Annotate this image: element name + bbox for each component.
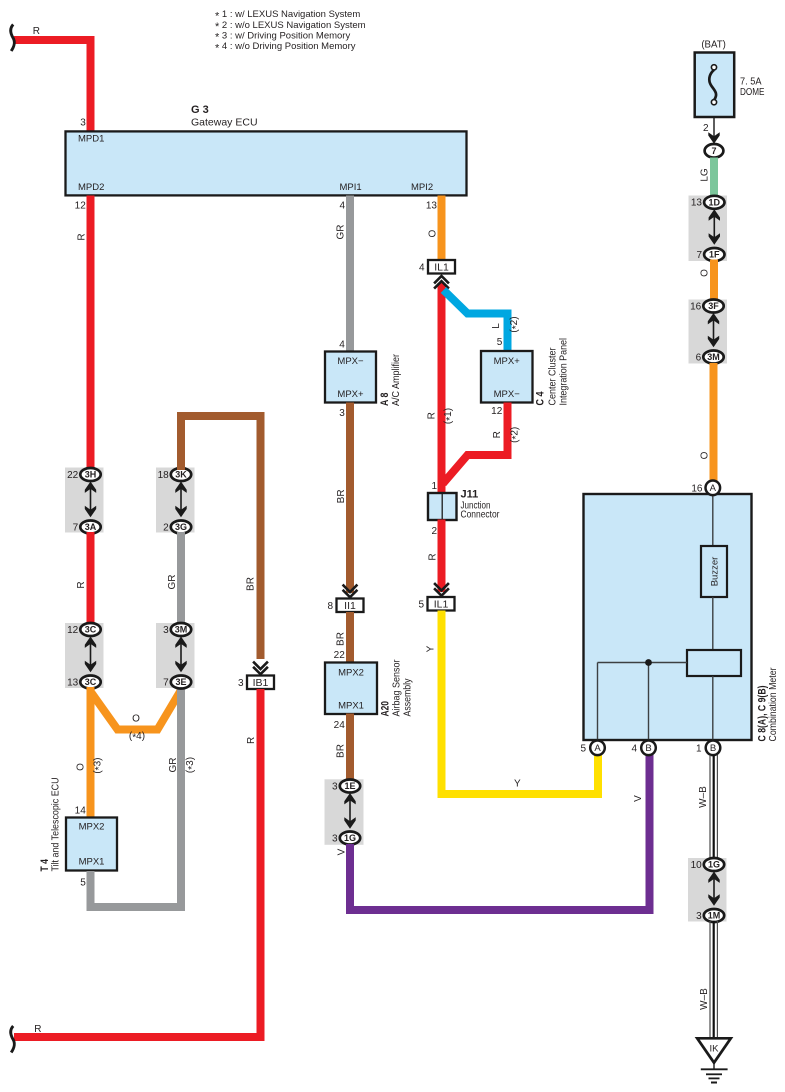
svg-text:10: 10 bbox=[691, 860, 703, 871]
svg-text:3M: 3M bbox=[707, 352, 720, 362]
svg-text:B: B bbox=[710, 743, 716, 754]
connector A pin 16 (meter top) bbox=[706, 481, 721, 496]
connector 7 bbox=[705, 144, 724, 158]
svg-text:3: 3 bbox=[80, 118, 86, 129]
svg-text:1M: 1M bbox=[708, 911, 721, 921]
legend note *1-*4 bbox=[215, 9, 366, 54]
svg-text:13: 13 bbox=[691, 198, 703, 209]
connector 3C pin 12 bbox=[67, 623, 101, 636]
svg-text:MPX−: MPX− bbox=[494, 389, 521, 400]
connector 3K pin 18 bbox=[158, 468, 192, 481]
svg-text:5: 5 bbox=[497, 337, 503, 348]
connector pair 1D/1F background bbox=[689, 196, 728, 262]
svg-text:II1: II1 bbox=[344, 600, 356, 612]
svg-text:8: 8 bbox=[327, 601, 333, 612]
svg-text:L: L bbox=[491, 323, 502, 329]
svg-text:R: R bbox=[426, 412, 437, 419]
svg-text:W–B: W–B bbox=[698, 786, 709, 808]
svg-text:R: R bbox=[76, 233, 87, 240]
svg-text:(*4): (*4) bbox=[129, 731, 145, 744]
svg-text:24: 24 bbox=[334, 720, 346, 731]
connector pair 1G/1M background bbox=[688, 858, 727, 922]
svg-text:G 3: G 3 bbox=[191, 104, 209, 116]
wire BR A8 to II1 bbox=[346, 403, 354, 594]
svg-text:22: 22 bbox=[67, 470, 79, 481]
branch chevrons below IL1 (pointing up) bbox=[434, 276, 449, 289]
svg-text:R: R bbox=[492, 431, 503, 438]
svg-text:22: 22 bbox=[334, 650, 346, 661]
connector IL1 pin 5 bbox=[418, 597, 454, 611]
wire GR 3G to 3M bbox=[177, 532, 185, 624]
arrow 1E-1G bbox=[344, 793, 355, 829]
svg-text:R: R bbox=[427, 553, 438, 560]
svg-text:GR: GR bbox=[335, 225, 346, 240]
svg-text:Y: Y bbox=[426, 645, 437, 652]
wire V 1G to meter pin 4(B) bbox=[350, 754, 650, 910]
svg-text:IB1: IB1 bbox=[253, 677, 269, 689]
svg-text:A: A bbox=[594, 743, 601, 754]
ECU T4 Tilt and Telescopic ECU bbox=[39, 778, 117, 872]
svg-text:Combination Meter: Combination Meter bbox=[767, 667, 779, 741]
svg-text:7: 7 bbox=[73, 522, 79, 533]
svg-text:IL1: IL1 bbox=[434, 261, 449, 273]
wire O bypass 3C to 3E (*4) bbox=[91, 690, 182, 730]
svg-text:(*3): (*3) bbox=[185, 757, 198, 773]
svg-text:IL1: IL1 bbox=[434, 598, 449, 610]
svg-text:(BAT): (BAT) bbox=[701, 39, 726, 51]
branch chevrons above IB1 bbox=[253, 662, 268, 675]
svg-text:Assembly: Assembly bbox=[402, 678, 414, 717]
connector pair 3H/3A background bbox=[65, 468, 104, 533]
arrow 3H-3A bbox=[85, 482, 96, 518]
svg-text:12: 12 bbox=[67, 625, 79, 636]
svg-text:MPI1: MPI1 bbox=[340, 182, 362, 193]
connector 3E pin 7 bbox=[163, 676, 191, 689]
svg-text:1: 1 bbox=[696, 743, 702, 754]
internal wire horizontal bbox=[598, 662, 688, 664]
svg-text:3: 3 bbox=[332, 781, 338, 792]
ground IK bbox=[697, 1038, 731, 1082]
wire Y IL1 to meter pin 5(A) bbox=[442, 611, 599, 795]
svg-text:16: 16 bbox=[690, 301, 702, 312]
ECU A8 A/C Amplifier bbox=[325, 352, 402, 407]
svg-text:3K: 3K bbox=[175, 470, 187, 480]
connector 1G pin 3 bbox=[332, 832, 360, 845]
wire fuse to connector 7 bbox=[713, 117, 715, 140]
internal wire to pin 4(B) bbox=[648, 663, 650, 742]
connector pair 3K/3G background bbox=[156, 468, 195, 533]
svg-text:W–B: W–B bbox=[699, 988, 710, 1010]
svg-text:1: 1 bbox=[431, 481, 437, 492]
meter C8(A) C9(B) Combination Meter bbox=[584, 494, 780, 742]
svg-text:Connector: Connector bbox=[461, 509, 500, 521]
connector 3H pin 22 bbox=[67, 468, 101, 481]
svg-text:B: B bbox=[645, 743, 651, 754]
svg-text:3H: 3H bbox=[85, 470, 97, 480]
svg-text:5: 5 bbox=[580, 743, 586, 754]
svg-text:R: R bbox=[33, 26, 40, 37]
arrow 1G-1M bbox=[708, 872, 719, 906]
ECU A20 Airbag Sensor Assembly bbox=[325, 659, 414, 716]
svg-text:Integration Panel: Integration Panel bbox=[558, 338, 570, 406]
wire BR II1 to A20 bbox=[346, 612, 354, 663]
svg-text:13: 13 bbox=[426, 201, 438, 212]
svg-text:BR: BR bbox=[335, 744, 346, 758]
svg-text:3E: 3E bbox=[175, 677, 186, 687]
svg-text:Gateway ECU: Gateway ECU bbox=[191, 116, 258, 128]
junction dot bbox=[645, 659, 652, 666]
wire O 3M to meter pin 16(A) bbox=[710, 363, 718, 481]
wire R IL1 down to J11 pin 1 bbox=[438, 283, 446, 493]
svg-text:(*3): (*3) bbox=[92, 758, 105, 774]
svg-text:A: A bbox=[710, 483, 717, 494]
svg-text:GR: GR bbox=[167, 575, 178, 590]
svg-text:A/C Amplifier: A/C Amplifier bbox=[390, 354, 402, 406]
svg-text:16: 16 bbox=[691, 483, 703, 494]
wire W-B meter to 1G bbox=[710, 755, 717, 859]
svg-text:3G: 3G bbox=[175, 522, 187, 532]
wire R J11 to IL1 pin 5 bbox=[438, 520, 446, 593]
connector 3A pin 7 bbox=[73, 521, 101, 534]
svg-text:3F: 3F bbox=[708, 301, 719, 311]
svg-text:O: O bbox=[75, 763, 86, 771]
arrow 3K-3G bbox=[175, 482, 186, 518]
connector pair 1E/1G background bbox=[325, 779, 364, 845]
connector 3C pin 13 bbox=[67, 676, 101, 689]
connector 1D pin 13 bbox=[691, 196, 725, 209]
svg-text:5: 5 bbox=[80, 878, 86, 889]
svg-text:J11: J11 bbox=[461, 489, 479, 501]
wire O 3C to T4 pin 14 bbox=[87, 687, 95, 818]
connector 3G pin 2 bbox=[163, 521, 191, 534]
internal relay box bbox=[687, 650, 741, 676]
svg-text:R: R bbox=[34, 1024, 41, 1035]
svg-text:C 4: C 4 bbox=[535, 391, 547, 406]
svg-text:3: 3 bbox=[163, 625, 169, 636]
svg-text:MPX2: MPX2 bbox=[79, 822, 105, 833]
svg-text:BR: BR bbox=[335, 632, 346, 646]
svg-text:1D: 1D bbox=[709, 198, 721, 208]
svg-text:1G: 1G bbox=[708, 860, 720, 870]
svg-text:BR: BR bbox=[246, 577, 257, 591]
svg-text:2: 2 bbox=[703, 123, 709, 134]
svg-text:(*1): (*1) bbox=[443, 408, 456, 424]
connector 1M pin 3 bbox=[696, 909, 724, 922]
svg-text:3C: 3C bbox=[85, 677, 97, 687]
svg-text:MPX+: MPX+ bbox=[337, 389, 364, 400]
svg-text:4: 4 bbox=[419, 262, 425, 273]
svg-text:1E: 1E bbox=[344, 781, 355, 791]
wire LG connector7 to 1D bbox=[710, 158, 718, 198]
wire GR T4 pin5 loop to 3E bbox=[91, 688, 182, 907]
arrow down to connector 7 bbox=[708, 132, 719, 143]
buzzer bbox=[701, 546, 727, 597]
fuse 7.5A DOME bbox=[695, 53, 765, 118]
svg-text:Y: Y bbox=[514, 778, 521, 789]
svg-text:Tilt and Telescopic ECU: Tilt and Telescopic ECU bbox=[50, 778, 62, 872]
svg-text:14: 14 bbox=[75, 806, 87, 817]
svg-text:4: 4 bbox=[631, 743, 637, 754]
ECU C4 Center Cluster Integration Panel bbox=[481, 338, 570, 406]
connector 3F pin 16 bbox=[690, 300, 724, 313]
svg-text:O: O bbox=[699, 451, 710, 459]
connector 3M pin 6 bbox=[696, 351, 724, 364]
svg-text:3: 3 bbox=[339, 408, 345, 419]
svg-text:2: 2 bbox=[431, 526, 437, 537]
svg-text:12: 12 bbox=[491, 406, 503, 417]
svg-text:MPX2: MPX2 bbox=[338, 668, 364, 679]
svg-text:O: O bbox=[427, 229, 438, 237]
svg-text:1F: 1F bbox=[709, 250, 720, 260]
junction connector J11 bbox=[428, 489, 500, 521]
svg-text:18: 18 bbox=[158, 470, 170, 481]
internal wire buzzer to relay box bbox=[712, 597, 714, 650]
connector pair 3C/3C background bbox=[65, 623, 104, 688]
svg-text:GR: GR bbox=[168, 758, 179, 773]
wire R MPD2 to 3H bbox=[87, 196, 95, 470]
connector A pin 5 (meter bottom) bbox=[580, 741, 604, 756]
svg-text:R: R bbox=[76, 581, 87, 588]
svg-text:O: O bbox=[132, 714, 140, 725]
ECU G3 Gateway ECU bbox=[66, 104, 467, 196]
svg-text:V: V bbox=[337, 848, 348, 855]
wire R 3A to 3C bbox=[87, 532, 95, 624]
svg-text:(*2): (*2) bbox=[509, 316, 522, 332]
svg-text:MPI2: MPI2 bbox=[411, 182, 433, 193]
svg-text:3: 3 bbox=[696, 911, 702, 922]
svg-text:2: 2 bbox=[163, 522, 169, 533]
svg-text:12: 12 bbox=[75, 201, 87, 212]
break symbol bottom-left bbox=[11, 1026, 15, 1053]
svg-text:(*2): (*2) bbox=[509, 427, 522, 443]
wire L to C4 pin 5 (*2) bbox=[444, 290, 508, 352]
connector IL1 pin 4 bbox=[419, 260, 455, 274]
internal wire to pin 5(A) bbox=[597, 663, 599, 742]
svg-text:MPD1: MPD1 bbox=[78, 134, 104, 145]
connector pair 3F/3M background bbox=[689, 300, 728, 364]
svg-text:MPX−: MPX− bbox=[337, 356, 364, 367]
svg-text:5: 5 bbox=[418, 599, 424, 610]
svg-text:3C: 3C bbox=[85, 625, 97, 635]
wire W-B 1M to ground bbox=[710, 921, 717, 1038]
connector B pin 4 (meter bottom) bbox=[631, 741, 655, 756]
connector IB1 pin 3 bbox=[238, 676, 274, 690]
arrow 1D-1F bbox=[709, 209, 720, 244]
svg-text:MPX+: MPX+ bbox=[494, 356, 521, 367]
svg-text:3A: 3A bbox=[85, 522, 97, 532]
wire O 1F to 3F bbox=[710, 260, 718, 302]
connector 1E pin 3 bbox=[332, 780, 360, 793]
svg-text:3: 3 bbox=[238, 678, 244, 689]
internal wire relay box to pin 1(B) bbox=[712, 676, 714, 741]
connector 3M pin 3 bbox=[163, 623, 191, 636]
svg-text:MPX1: MPX1 bbox=[79, 857, 105, 868]
svg-text:R: R bbox=[246, 737, 257, 744]
connector pair 3M/3E background bbox=[156, 623, 195, 688]
arrow 3M-3E bbox=[175, 637, 186, 673]
arrow 3C-3C bbox=[85, 637, 96, 673]
svg-text:MPX1: MPX1 bbox=[338, 701, 364, 712]
svg-text:1G: 1G bbox=[344, 833, 356, 843]
svg-text:MPD2: MPD2 bbox=[78, 182, 104, 193]
wire BR A20 to 1E bbox=[346, 714, 354, 782]
wire R IB1 to break bottom-left bbox=[14, 689, 261, 1037]
svg-text:7: 7 bbox=[163, 677, 169, 688]
wire O MPI2 to IL1 bbox=[438, 196, 446, 262]
wire R C4 pin12 to junction (*2) bbox=[443, 403, 508, 484]
svg-text:LG: LG bbox=[699, 168, 710, 182]
wire BR 3K loop to IB1 bbox=[181, 416, 261, 659]
svg-text:Buzzer: Buzzer bbox=[709, 557, 720, 587]
svg-text:7: 7 bbox=[696, 250, 702, 261]
internal wire A16 to buzzer bbox=[712, 494, 714, 547]
break symbol top-left bbox=[11, 25, 15, 52]
connector 1F pin 7 bbox=[696, 248, 724, 261]
connector II1 pin 8 bbox=[327, 599, 363, 613]
connector B pin 1 (meter bottom) bbox=[696, 741, 720, 756]
wire R from break to gateway pin 3 bbox=[14, 40, 91, 132]
branch chevrons above IL1 pin5 bbox=[434, 583, 449, 596]
svg-text:V: V bbox=[633, 795, 644, 802]
svg-text:6: 6 bbox=[696, 352, 702, 363]
svg-text:7: 7 bbox=[711, 146, 716, 156]
svg-text:4: 4 bbox=[339, 340, 345, 351]
arrow 3F-3M bbox=[708, 313, 719, 347]
svg-text:4: 4 bbox=[339, 201, 345, 212]
wire GR MPI1 to A8 bbox=[346, 196, 354, 353]
svg-text:O: O bbox=[699, 269, 710, 277]
svg-text:DOME: DOME bbox=[740, 86, 765, 98]
connector 1G pin 10 bbox=[691, 858, 725, 871]
svg-text:3M: 3M bbox=[175, 625, 188, 635]
svg-text:3: 3 bbox=[332, 833, 338, 844]
svg-text:13: 13 bbox=[67, 677, 79, 688]
branch chevrons above II1 bbox=[343, 585, 358, 598]
svg-text:IK: IK bbox=[710, 1044, 720, 1055]
svg-text:BR: BR bbox=[336, 489, 347, 503]
